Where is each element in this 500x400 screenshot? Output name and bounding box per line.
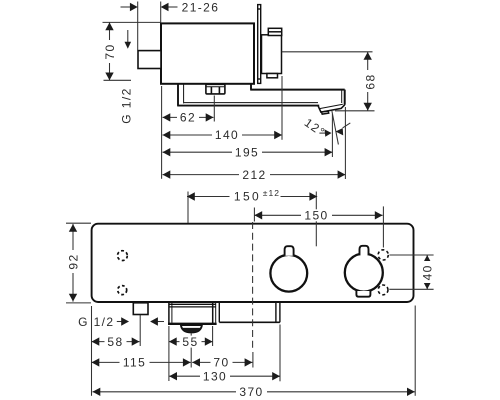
- angle 12 deg: [319, 111, 350, 145]
- spout outlet nozzle (12 deg): [318, 104, 345, 114]
- svg-text:370: 370: [239, 385, 263, 399]
- dim 62: [163, 96, 215, 122]
- svg-text:150: 150: [234, 190, 261, 204]
- dim 150+-12: [187, 192, 317, 247]
- nipple-top pointer arrow: [125, 30, 132, 49]
- dim 130: [169, 375, 280, 377]
- centerline (dashed): [252, 222, 254, 348]
- spout block under panel: [168, 303, 217, 324]
- svg-text:70: 70: [213, 356, 229, 370]
- right knob: [345, 254, 383, 292]
- left extension line of bottom dims (side view): [161, 86, 163, 179]
- wall mounting block: [262, 28, 282, 78]
- svg-text:195: 195: [235, 145, 259, 159]
- right knob bottom tab: [356, 291, 370, 297]
- screw holes right knob (dashed): [378, 250, 388, 260]
- svg-text:G 1/2: G 1/2: [78, 315, 114, 329]
- dim 70 (vertical, side view): [103, 22, 162, 80]
- svg-text:130: 130: [203, 369, 227, 383]
- G 1/2 nipple (front view): [133, 303, 148, 315]
- right knob nub: [360, 246, 369, 256]
- aerator fitting under body: [206, 84, 225, 94]
- svg-text:115: 115: [123, 356, 146, 370]
- extension lines bottom view: [92, 306, 416, 396]
- facing pointer right of nipple: [150, 317, 164, 325]
- connection box under panel: [219, 303, 280, 323]
- svg-text:58: 58: [107, 335, 123, 349]
- svg-text:68: 68: [364, 73, 378, 89]
- dim 140: [163, 76, 283, 140]
- svg-text:140: 140: [215, 128, 239, 142]
- svg-text:21-26: 21-26: [182, 1, 220, 15]
- svg-text:±12: ±12: [263, 188, 280, 198]
- dim 40 (vertical): [389, 255, 433, 289]
- svg-text:G 1/2: G 1/2: [120, 87, 134, 123]
- front panel: [92, 224, 414, 302]
- dim 115: [92, 361, 191, 363]
- left knob: [270, 255, 307, 292]
- svg-text:62: 62: [180, 111, 196, 125]
- dim 21-26: [121, 2, 178, 51]
- wall plate: [258, 5, 261, 84]
- spout bar (side view): [177, 84, 345, 105]
- svg-text:150: 150: [304, 209, 328, 223]
- dim 68 (vertical): [282, 52, 375, 111]
- dim 370: [93, 391, 415, 393]
- svg-text:70: 70: [103, 43, 117, 59]
- dim 58: [92, 341, 140, 343]
- left knob nub: [285, 246, 294, 256]
- svg-text:40: 40: [421, 264, 435, 280]
- mixer body (side view): [161, 23, 254, 83]
- supply nipple (side view): [138, 51, 161, 69]
- svg-text:92: 92: [67, 253, 81, 269]
- spout aerator dome (front view): [181, 325, 202, 332]
- dim 195: [163, 114, 333, 157]
- dim 92 (vertical): [66, 223, 91, 303]
- screw holes left panel (dashed): [118, 251, 128, 261]
- svg-text:212: 212: [242, 168, 266, 182]
- dim 55: [169, 341, 213, 343]
- dim 212: [163, 107, 346, 179]
- dim 70 (front view): [192, 361, 252, 363]
- svg-text:55: 55: [182, 335, 198, 349]
- dim 150: [254, 206, 383, 247]
